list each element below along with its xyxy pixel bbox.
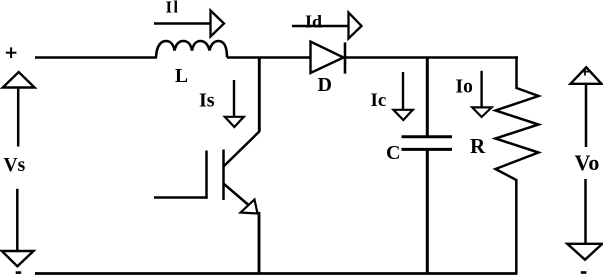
resistor R [496,88,539,180]
wire: emitter to bottom return [258,212,261,274]
wire: resistor to bottom return [515,179,518,274]
voltage arrow Vs [2,72,35,266]
wire: switch node down to collector [258,58,261,132]
current arrow Id [292,13,362,39]
label + (Vs) [6,47,17,58]
svg-text:Ic: Ic [371,90,387,111]
capacitor C [402,137,453,150]
body bar [222,150,225,201]
collector diagonal [224,131,260,166]
svg-text:R: R [470,134,486,158]
svg-text:Il: Il [166,0,180,17]
current arrow Io [472,71,491,117]
emitter diagonal [224,184,259,214]
wire: top-right corner lead into resistor [515,56,518,89]
current arrow Il [154,11,224,37]
wire: bottom return [35,272,517,275]
diode D [311,42,346,74]
inductor L [156,41,227,58]
gate lead [154,196,208,199]
wire: input top segment [35,56,157,59]
label + (Vo) [581,68,589,76]
svg-text:Is: Is [199,90,215,112]
svg-text:Vs: Vs [4,155,26,176]
svg-text:Vo: Vo [575,150,600,175]
wire: top wire down to capacitor [426,58,429,137]
label - (Vo) [581,271,587,274]
voltage arrow Vo [567,67,602,259]
current arrow Ic [393,72,412,120]
svg-text:Id: Id [305,12,322,32]
svg-text:Io: Io [456,76,473,97]
wire: inductor to diode anode [227,56,311,59]
svg-text:L: L [175,66,188,87]
transistor Q1 (IGBT switch) [154,131,260,214]
gate bar [205,151,208,199]
emitter arrowhead [241,200,258,214]
label - (Vs) [16,271,22,274]
wire: capacitor to bottom return [426,150,429,274]
svg-text:D: D [318,74,332,96]
wire: diode cathode to top-right corner [345,56,518,59]
svg-text:C: C [386,142,400,164]
current arrow Is [225,80,244,127]
